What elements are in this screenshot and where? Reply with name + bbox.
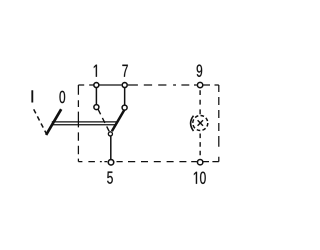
contact lever terminal 7 to pivot (solid, thick): [112, 110, 124, 131]
actuator lever position I (dashed): [34, 109, 47, 134]
wire terminal 9 to lamp (dashed): [199, 90, 201, 115]
label 0 (actuator position): [59, 91, 65, 103]
wire terminal 1 to contact 1: [95, 88, 97, 105]
wire pivot contact to terminal 5: [110, 136, 112, 159]
wire terminal 7 to contact 7: [124, 88, 126, 105]
actuator lever position 0 (solid, thick): [46, 109, 61, 135]
label pin 7: [122, 65, 127, 77]
housing outline bottom edge (dash-dot), net of terminals 5 10: [78, 161, 218, 163]
label pin 1: [94, 65, 97, 77]
indicator lamp (dashed circle with X, optional bracket): [191, 116, 208, 132]
terminal 10: [197, 160, 202, 165]
label pin 10: [194, 172, 206, 184]
contact 1 (lower circle under terminal 1): [94, 105, 99, 110]
label pin 5: [107, 172, 113, 184]
terminal 1: [94, 83, 99, 88]
terminal 5: [108, 160, 114, 166]
housing outline top edge (dash-dot), net of terminals 1 7 9: [78, 84, 218, 86]
terminal 7: [122, 83, 127, 88]
contact lever contact 1 to pivot (dashed, alternate position): [98, 109, 109, 131]
wire lamp to terminal 10 (dashed): [199, 134, 201, 160]
housing outline right edge (dashed): [218, 85, 220, 162]
label I (actuator position): [32, 90, 34, 102]
terminal 9: [197, 82, 202, 87]
housing outline left edge (dash-dot): [77, 85, 79, 162]
contact bridge (double line): [51, 122, 118, 125]
contact 7 (lower circle under terminal 7): [122, 105, 127, 110]
pivot contact above terminal 5: [108, 132, 112, 136]
label pin 9: [197, 64, 203, 76]
